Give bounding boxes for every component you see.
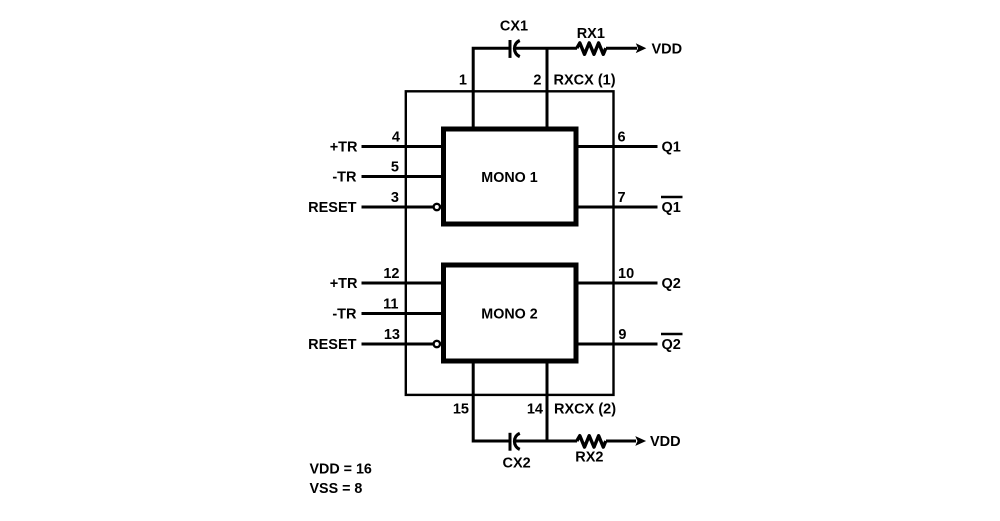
- IC package outline rectangle: [406, 91, 614, 395]
- svg-text:10: 10: [618, 266, 634, 282]
- svg-text:13: 13: [384, 327, 400, 343]
- op-amp U2 : MONO 2 box: [444, 265, 577, 361]
- wire Q2-bar output: [576, 343, 658, 346]
- svg-text:CX2: CX2: [502, 456, 530, 472]
- wire and arrow to VDD (top): [606, 43, 646, 53]
- svg-text:1: 1: [459, 73, 467, 89]
- label Q2-bar with overline: [661, 334, 683, 353]
- svg-text:14: 14: [527, 402, 543, 418]
- svg-text:RX1: RX1: [577, 26, 605, 42]
- svg-text:Q2: Q2: [662, 337, 681, 353]
- wire pin14 column: [546, 362, 549, 443]
- inverter bubble MONO1 reset: [434, 204, 440, 210]
- svg-text:RX2: RX2: [575, 450, 603, 466]
- svg-text:RESET: RESET: [308, 200, 356, 216]
- wire Q2 output: [576, 282, 658, 285]
- svg-text:4: 4: [392, 130, 400, 146]
- wire from CX1 to RX1: [516, 47, 578, 50]
- wire pin2 column: [546, 48, 549, 129]
- wire from CX2 to RX2: [516, 440, 578, 443]
- svg-text:+TR: +TR: [330, 276, 358, 292]
- svg-text:Q2: Q2: [662, 276, 681, 292]
- wire +TR input MONO2: [362, 282, 444, 285]
- svg-text:Q1: Q1: [662, 140, 681, 156]
- svg-text:VSS = 8: VSS = 8: [310, 481, 363, 497]
- svg-text:12: 12: [383, 266, 399, 282]
- wire RESET input MONO1: [362, 206, 434, 209]
- svg-text:MONO 1: MONO 1: [481, 170, 537, 186]
- wire +TR input MONO1: [362, 145, 444, 148]
- wire RESET input MONO2: [362, 343, 434, 346]
- svg-text:2: 2: [533, 73, 541, 89]
- svg-text:+TR: +TR: [330, 140, 358, 156]
- svg-text:MONO 2: MONO 2: [481, 307, 537, 323]
- wire -TR input MONO1: [362, 175, 444, 178]
- svg-text:VDD: VDD: [652, 41, 683, 57]
- svg-text:-TR: -TR: [332, 307, 357, 323]
- svg-text:Q1: Q1: [662, 200, 681, 216]
- svg-text:9: 9: [618, 327, 626, 343]
- svg-text:3: 3: [391, 190, 399, 206]
- op-amp U1 : MONO 1 box: [444, 129, 577, 224]
- svg-text:RXCX (1): RXCX (1): [554, 73, 616, 89]
- wire -TR input MONO2: [362, 312, 444, 315]
- wire pin1 column and top wire to CX1: [473, 48, 509, 129]
- wire Q1 output: [576, 145, 658, 148]
- svg-text:VDD = 16: VDD = 16: [310, 462, 372, 478]
- resistor RX2: [577, 436, 606, 447]
- svg-text:5: 5: [391, 160, 399, 176]
- capacitor CX2: [510, 433, 520, 451]
- svg-text:6: 6: [618, 130, 626, 146]
- wire Q1-bar output: [576, 206, 658, 209]
- svg-text:VDD: VDD: [650, 434, 681, 450]
- wire pin15 column and bottom wire to CX2: [473, 362, 509, 441]
- label Q1-bar with overline: [661, 197, 683, 216]
- svg-text:7: 7: [618, 190, 626, 206]
- inverter bubble MONO2 reset: [434, 341, 440, 347]
- svg-text:RESET: RESET: [308, 337, 356, 353]
- capacitor CX1: [510, 40, 520, 58]
- resistor RX1: [577, 43, 606, 54]
- svg-text:CX1: CX1: [500, 19, 528, 35]
- svg-text:-TR: -TR: [332, 170, 357, 186]
- wire and arrow to VDD (bottom): [606, 436, 646, 446]
- svg-text:15: 15: [453, 402, 469, 418]
- svg-text:RXCX (2): RXCX (2): [554, 402, 616, 418]
- svg-text:11: 11: [383, 297, 398, 313]
